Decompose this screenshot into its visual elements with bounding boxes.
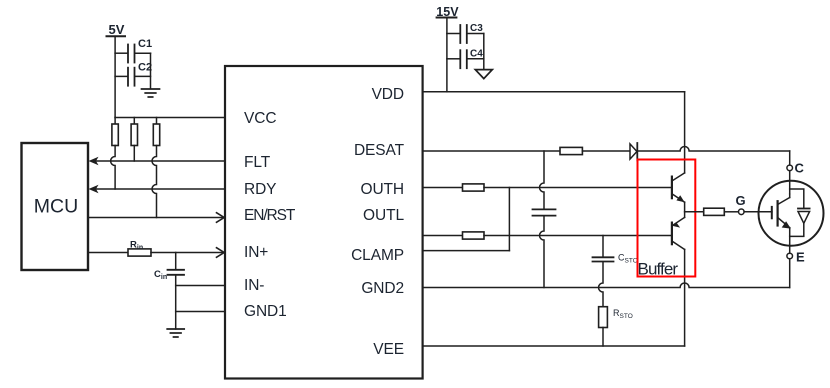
wire blanking branch vertical with hops (540, 151, 545, 209)
svg-text:DESAT: DESAT (354, 142, 405, 159)
wire GND2 net with hops (423, 283, 790, 288)
wire IN+ net (88, 252, 128, 254)
svg-text:E: E (796, 250, 805, 265)
transistor Q2 PNP buffer low side (672, 217, 685, 249)
svg-text:C4: C4 (470, 49, 483, 60)
svg-text:VEE: VEE (373, 341, 404, 358)
resistor R2 pull-up (131, 118, 137, 162)
wire blanking cap to GND2 with hop over OUTL row (540, 216, 545, 288)
wire OUTL net (423, 235, 463, 237)
wire FLT net with arrow into MCU (89, 157, 226, 165)
node 15V supply label (436, 5, 459, 19)
wire VCC net (115, 117, 225, 119)
diode D1 DESAT (630, 143, 637, 161)
wire C1/C2 right rail (150, 53, 152, 88)
wire G node to IGBT gate (744, 211, 772, 213)
ground earth symbol under C2 (142, 89, 160, 97)
svg-text:CLAMP: CLAMP (351, 247, 404, 264)
wire VDD vertical to buffer collector (684, 92, 686, 173)
node 5V supply label (107, 22, 126, 37)
wire Cin to ground (175, 275, 177, 329)
svg-text:Buffer: Buffer (638, 260, 679, 279)
resistor Rin (128, 240, 151, 257)
wire EN/RST net with arrow into driver (88, 213, 224, 223)
node G terminal (736, 193, 746, 215)
capacitor C1 (115, 38, 152, 63)
wire GND2 up to emitter terminal (789, 259, 791, 288)
node C terminal (787, 161, 805, 176)
wire IN+ net to driver with arrow (151, 248, 224, 258)
svg-text:IN+: IN+ (244, 244, 268, 261)
capacitor Cin (154, 253, 184, 282)
wire RDY net with arrow into MCU (89, 185, 226, 193)
wire collector drop to C terminal (789, 151, 791, 165)
svg-text:OUTL: OUTL (363, 207, 404, 224)
wire 15V vertical rail (446, 18, 448, 92)
wire CLAMP vertical to OUTH node (508, 188, 510, 251)
resistor DESAT series (560, 147, 582, 154)
svg-text:5V: 5V (109, 22, 125, 37)
svg-text:MCU: MCU (34, 196, 78, 218)
capacitor blanking (533, 209, 556, 215)
svg-text:VCC: VCC (244, 110, 276, 127)
ground triangle symbol (475, 70, 492, 79)
wire OUTH net (423, 187, 463, 189)
wire RSTO to VEE (602, 328, 604, 347)
transistor Q1 NPN buffer high side (672, 173, 685, 202)
wire OUTL to PNP base (484, 235, 672, 237)
resistor R1 pull-up (111, 118, 119, 190)
svg-text:C3: C3 (470, 23, 483, 34)
wire buffer output to gate resistor (685, 211, 704, 213)
transistor IGBT module (759, 181, 824, 254)
diode antiparallel inside IGBT (790, 189, 810, 236)
svg-text:G: G (736, 193, 746, 208)
wire DESAT resistor to diode (582, 150, 630, 152)
red box buffer outline (638, 160, 696, 277)
wire OUTH to NPN base (484, 187, 672, 189)
op-amp U1 gate driver IC block (225, 66, 423, 379)
wire VDD net (423, 91, 685, 93)
svg-text:FLT: FLT (244, 154, 271, 171)
svg-text:EN/RST: EN/RST (244, 207, 296, 224)
svg-text:GND1: GND1 (244, 303, 287, 320)
wire C3/C4 right rail (483, 34, 485, 70)
svg-text:OUTH: OUTH (360, 181, 404, 198)
ground earth symbol GND1 (167, 329, 184, 337)
capacitor C3 (447, 23, 484, 43)
wire NPN emitter to output node (684, 202, 686, 217)
wire CLAMP net (423, 250, 510, 252)
resistor RSTO (599, 307, 633, 328)
resistor OUTL gate series (463, 232, 485, 239)
svg-text:C1: C1 (138, 38, 152, 50)
capacitor CSTO branch from OUTL row (602, 236, 604, 258)
wire GND1 net (176, 311, 225, 313)
svg-text:VDD: VDD (372, 86, 404, 103)
wire IN- net (176, 285, 225, 287)
MCU block (22, 143, 89, 270)
capacitor C4 (447, 49, 484, 69)
svg-text:RDY: RDY (244, 181, 276, 198)
capacitor C2 (115, 62, 152, 86)
wire DESAT net (423, 150, 560, 152)
node E terminal (787, 250, 805, 265)
wire C terminal into IGBT (789, 171, 791, 194)
resistor OUTH gate series (463, 184, 485, 191)
resistor gate series (704, 208, 725, 215)
svg-text:GND2: GND2 (361, 280, 404, 297)
svg-text:IN-: IN- (244, 277, 264, 294)
wire 5V vertical rail (114, 36, 116, 117)
wire VEE net (423, 345, 685, 347)
resistor R3 pull-up (152, 118, 160, 218)
wire DESAT to collector with hop over VDD drop (637, 147, 789, 152)
svg-text:C: C (795, 161, 805, 176)
wire CSTO to RSTO with hop over GND2 (599, 262, 604, 307)
wire PNP collector to VEE (684, 249, 686, 346)
wire gate resistor to G node (724, 211, 738, 213)
